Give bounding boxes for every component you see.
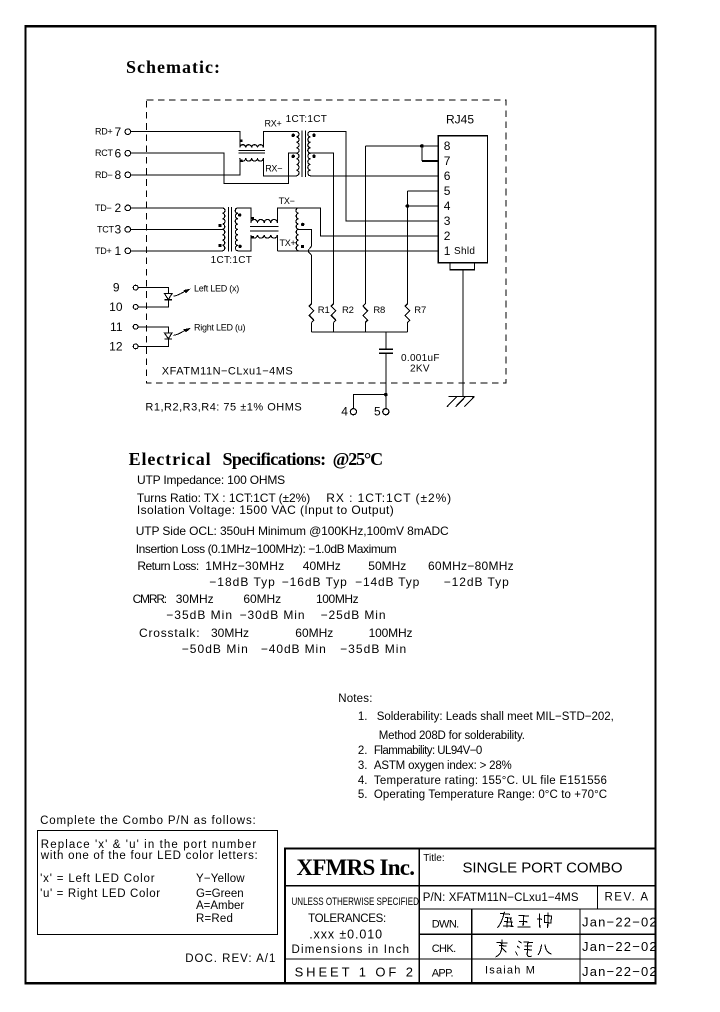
title block outer [285, 848, 655, 983]
svg-text:SINGLE PORT COMBO: SINGLE PORT COMBO [463, 860, 623, 877]
choke L1 bottom winding [240, 158, 264, 161]
combo text line 1 [41, 839, 258, 852]
svg-text:XFATM11N−CLxu1−4MS: XFATM11N−CLxu1−4MS [162, 365, 293, 377]
dashed schematic boundary box [147, 100, 506, 383]
wire RD+7 to choke L1 [131, 132, 240, 148]
spec cmrr f2 [243, 593, 281, 606]
choke L1 core [238, 150, 264, 153]
svg-text:R8: R8 [373, 305, 385, 316]
note 2 number [358, 745, 368, 758]
spec rl v2 [282, 576, 348, 589]
transformer T2 secondary winding [235, 208, 238, 251]
svg-text:11: 11 [110, 320, 123, 334]
LED D1 leader arrow [173, 291, 184, 296]
spec rl v3 [355, 576, 420, 589]
ground symbol [447, 397, 474, 407]
svg-text:RD−: RD− [95, 170, 113, 180]
svg-text:P/N: XFATM11N−CLxu1−4MS: P/N: XFATM11N−CLxu1−4MS [423, 892, 579, 904]
spec xt f1 [211, 627, 249, 640]
svg-text:3: 3 [444, 214, 451, 228]
doc rev [185, 953, 276, 966]
spec cmrr v3 [321, 609, 387, 622]
LED D1 symbol [165, 294, 173, 300]
wire T2 secondary top to choke L2 [238, 208, 251, 223]
LED D1 wires [138, 288, 168, 307]
pin 9 terminal [133, 285, 138, 290]
svg-text:DWN.: DWN. [432, 918, 459, 930]
junction node pins 4-5 external [384, 393, 388, 397]
svg-text:1: 1 [115, 244, 122, 258]
spec turns ratio [137, 492, 310, 505]
wire TX+ net choke to RJ45 pin1 [277, 235, 438, 251]
resistor R7 [405, 304, 410, 323]
choke L2 phase dot top [251, 217, 253, 219]
combo Y yellow [196, 873, 245, 886]
svg-text:RJ45: RJ45 [446, 113, 474, 127]
wire T1 secondary top to RJ45 pin3 [311, 132, 439, 222]
svg-text:6: 6 [444, 169, 451, 183]
wire capacitor to pins 4-5 [353, 353, 385, 408]
svg-text:RCT: RCT [95, 148, 113, 158]
svg-text:Title:: Title: [423, 853, 444, 864]
autotransformer winding W3 [296, 208, 299, 251]
LED D2 wires [138, 327, 168, 347]
spec heading Electrical [129, 450, 212, 470]
spec rl f4 [428, 560, 514, 573]
combo u legend [40, 888, 161, 901]
combo text line 2 [41, 850, 259, 863]
transformer T1 core [302, 130, 305, 177]
svg-text:9: 9 [113, 281, 120, 295]
junction pins 4-5 [406, 204, 410, 208]
svg-text:RX+: RX+ [265, 118, 282, 128]
RJ45 shield tab [450, 263, 475, 270]
svg-text:4: 4 [444, 199, 451, 213]
svg-text:Right LED (u): Right LED (u) [194, 323, 246, 333]
note 5 text [374, 789, 607, 802]
transformer T1 phase dots [292, 134, 295, 137]
wire RCT under-route to T1 center tap [131, 153, 297, 183]
svg-text:1CT:1CT: 1CT:1CT [211, 255, 253, 266]
note 1 number [358, 711, 368, 724]
note 3 number [358, 760, 368, 773]
svg-text:Isaiah M: Isaiah M [485, 965, 536, 977]
resistor R8 [363, 304, 368, 323]
spec isolation voltage [137, 504, 394, 517]
combo PN box [37, 830, 278, 935]
spec xt v1 [182, 643, 249, 656]
note 2 text [374, 745, 482, 758]
wire pins 4-5 tie to R7 [407, 191, 438, 304]
signature DWN (handwritten) [498, 912, 552, 928]
svg-text:R2: R2 [342, 305, 354, 316]
spec xt v2 [261, 643, 327, 656]
combo A amber [196, 900, 244, 913]
svg-text:4: 4 [341, 405, 348, 419]
combo x legend [40, 873, 155, 886]
heading Schematic: [126, 58, 221, 78]
spec return loss label [137, 560, 198, 573]
note 5 number [358, 789, 368, 802]
svg-text:XFMRS Inc.: XFMRS Inc. [297, 855, 415, 880]
wire T1 secondary center tap to R2 [311, 153, 334, 304]
wire TX- net choke to W3 [277, 208, 298, 223]
svg-text:SHEET 1 OF 2: SHEET 1 OF 2 [295, 964, 416, 979]
spec cmrr f3 [316, 593, 358, 606]
svg-text:R1: R1 [318, 305, 330, 316]
spec insertion loss [136, 543, 397, 556]
svg-text:Dimensions in Inch: Dimensions in Inch [292, 944, 411, 956]
note 4 number [358, 775, 368, 788]
svg-text:.xxx ±0.010: .xxx ±0.010 [309, 928, 383, 942]
pin 6 terminal RCT [125, 150, 131, 156]
svg-text:7: 7 [444, 154, 451, 168]
spec cmrr v2 [240, 609, 306, 622]
resistor R2 [331, 304, 336, 323]
pin 12 terminal [133, 344, 138, 349]
wire rail to capacitor C1 [385, 332, 387, 349]
svg-text:2: 2 [115, 201, 122, 215]
winding W3 phase dots [301, 223, 304, 226]
svg-text:2: 2 [444, 229, 451, 243]
svg-text:RX−: RX− [265, 163, 282, 173]
spec cmrr f1 [176, 593, 214, 606]
wire RX- net choke to T1 [263, 158, 296, 176]
spec cmrr v1 [166, 609, 233, 622]
svg-text:3: 3 [115, 223, 122, 237]
svg-text:Shld: Shld [454, 246, 475, 257]
svg-text:Jan−22−02: Jan−22−02 [582, 914, 658, 929]
svg-text:8: 8 [115, 168, 122, 182]
svg-text:TX−: TX− [279, 196, 295, 206]
resistor R1 [309, 304, 314, 323]
svg-text:5: 5 [444, 184, 451, 198]
svg-text:TD−: TD− [95, 203, 112, 213]
choke L1 phase dot top [240, 139, 243, 142]
wire R8 drop [364, 146, 366, 304]
svg-text:TCT: TCT [97, 224, 114, 234]
wire TD+1 to T2 [131, 250, 223, 252]
transformer T1 primary winding [296, 132, 299, 176]
wire TD-2 to T2 [131, 207, 223, 209]
wire W3 center tap to R1 [299, 229, 312, 303]
svg-text:UNLESS OTHERWISE SPECIFIED: UNLESS OTHERWISE SPECIFIED [292, 896, 419, 909]
combo PN heading [40, 815, 256, 828]
spec rl v1 [209, 576, 276, 589]
svg-text:2KV: 2KV [410, 364, 430, 375]
svg-text:5: 5 [374, 405, 381, 419]
transformer T2 phase dots [218, 224, 221, 227]
choke L2 bottom winding [251, 235, 278, 238]
svg-text:RD+: RD+ [95, 127, 113, 137]
spec xt f3 [369, 627, 413, 640]
wire pins 7-8 tie to R8 [365, 146, 438, 161]
svg-text:12: 12 [109, 339, 123, 353]
svg-text:0.001uF: 0.001uF [401, 353, 440, 364]
note 1 text [377, 711, 614, 724]
spec UTP impedance [137, 474, 285, 487]
notes heading [338, 693, 372, 706]
combo G green [196, 888, 244, 901]
spec heading Specifications: [223, 450, 326, 470]
svg-text:Jan−22−02: Jan−22−02 [582, 939, 658, 954]
transformer T2 core [229, 207, 232, 252]
wire shield to ground [462, 270, 464, 397]
svg-text:7: 7 [115, 125, 122, 139]
combo R red [196, 913, 233, 926]
spec OCL [136, 525, 449, 538]
transformer T2 primary winding [222, 208, 225, 251]
svg-text:TD+: TD+ [95, 246, 112, 256]
choke L2 top winding [251, 219, 278, 222]
svg-text:TX+: TX+ [280, 238, 296, 248]
choke L1 phase dot bottom [240, 160, 243, 163]
LED D2 leader arrow [173, 331, 184, 336]
note 4 text [374, 775, 607, 788]
wire T1 secondary bottom to RJ45 pin6 [311, 175, 439, 177]
transformer T1 secondary winding [308, 132, 311, 176]
note 3 text [374, 760, 512, 773]
svg-text:1: 1 [444, 244, 451, 258]
svg-text:APP.: APP. [432, 967, 454, 979]
spec xt v3 [340, 643, 407, 656]
pin 11 terminal [133, 324, 138, 329]
wire RX+ net choke to T1 [263, 132, 296, 148]
signature CHK (handwritten) [496, 940, 552, 958]
svg-text:Left LED (x): Left LED (x) [194, 283, 239, 293]
LED D2 symbol [165, 333, 173, 339]
svg-text:R7: R7 [414, 305, 426, 316]
svg-text:Jan−22−02: Jan−22−02 [582, 964, 658, 979]
svg-text:REV. A: REV. A [605, 891, 650, 903]
wire resistor bottom rail [312, 331, 408, 333]
pin 8 terminal RD- [125, 172, 131, 178]
pin 10 terminal [133, 305, 138, 310]
spec xt f2 [295, 627, 333, 640]
title block lines [285, 848, 655, 983]
capacitor C1 plates [379, 349, 393, 353]
junction pins 7-8 [420, 144, 424, 148]
wire pin 7 stub [422, 160, 438, 162]
spec rl v4 [444, 576, 510, 589]
choke L1 top winding [240, 145, 264, 148]
spec rl f3 [368, 560, 406, 573]
svg-text:R1,R2,R3,R4: 75 ±1% OHMS: R1,R2,R3,R4: 75 ±1% OHMS [145, 402, 302, 414]
spec rl f2 [303, 560, 341, 573]
spec turns ratio RX [326, 492, 452, 505]
spec rl f1 [205, 560, 284, 573]
svg-text:8: 8 [444, 139, 451, 153]
wire W3 top to RJ45 pin2 [299, 208, 439, 236]
choke L2 phase dot bottom [251, 236, 253, 238]
svg-text:TOLERANCES:: TOLERANCES: [308, 913, 386, 925]
wire TCT3 to T2 center tap [131, 228, 223, 230]
choke L2 core [250, 226, 278, 231]
connector RJ45 box [438, 136, 487, 263]
spec CMRR label [133, 593, 166, 606]
wire RD-8 to choke L1 [131, 158, 240, 175]
spec heading @25C [333, 450, 382, 470]
wire T2 secondary bottom to choke L2 [238, 235, 251, 251]
pin 4 external terminal [350, 409, 356, 415]
pin 2 terminal TD- [125, 205, 131, 211]
note 1 text line2 [379, 730, 525, 743]
spec crosstalk label [139, 627, 200, 640]
svg-text:10: 10 [109, 300, 123, 314]
pin 7 terminal RD+ [125, 129, 131, 135]
svg-text:1CT:1CT: 1CT:1CT [286, 114, 328, 125]
svg-text:CHK.: CHK. [432, 943, 456, 955]
svg-text:6: 6 [115, 147, 122, 161]
pin 5 external terminal [383, 409, 389, 415]
